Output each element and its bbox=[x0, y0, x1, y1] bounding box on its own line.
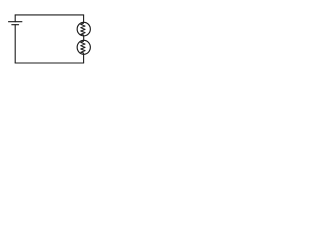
wire left top (battery top lead) bbox=[14, 15, 16, 22]
wire left bottom bbox=[14, 25, 16, 63]
wire top bbox=[15, 14, 83, 16]
lamp L1 filament bbox=[81, 22, 85, 35]
wire bottom bbox=[15, 62, 83, 64]
battery negative plate bbox=[12, 24, 19, 26]
wire right bottom bbox=[83, 54, 85, 63]
lamp L2 bbox=[77, 40, 90, 54]
battery positive plate bbox=[9, 21, 22, 23]
wire right top bbox=[83, 15, 85, 23]
lamp L2 filament bbox=[81, 40, 85, 53]
circuit schematic: battery with two lamps in series bbox=[0, 0, 125, 67]
wire between lamps bbox=[83, 36, 85, 40]
lamp L1 bbox=[77, 22, 90, 36]
